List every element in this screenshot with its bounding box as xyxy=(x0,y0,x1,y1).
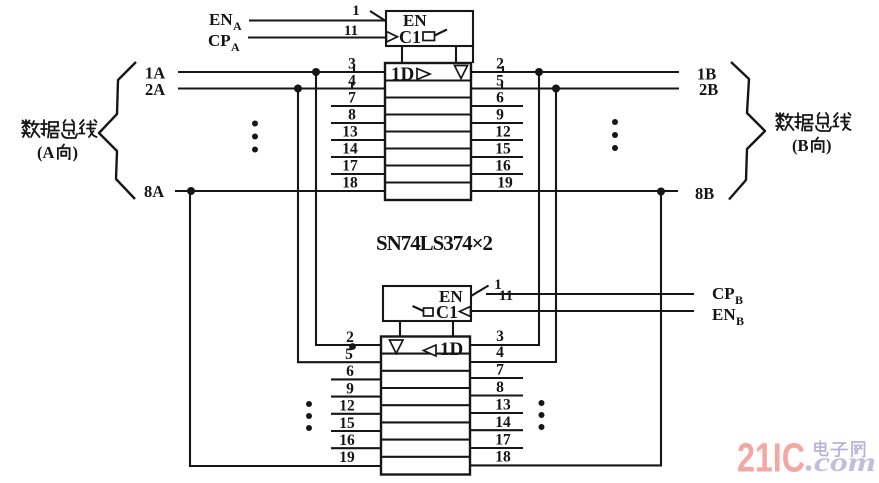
U1 left pin stub xyxy=(331,105,385,107)
pin 3 tick xyxy=(353,66,355,72)
svg-text:): ) xyxy=(73,143,79,162)
wire 2A to U1 pin4 xyxy=(178,87,385,89)
U1 body divider 6 xyxy=(385,164,471,166)
svg-text:15: 15 xyxy=(339,415,355,432)
wire 8B down to U2 pin18 xyxy=(470,192,661,466)
wire 8A down to U2 pin19 xyxy=(190,191,381,466)
svg-text:17: 17 xyxy=(342,158,358,175)
wire CP_A xyxy=(248,36,386,38)
U2 body divider 2 xyxy=(381,370,470,372)
U1 left pin stub xyxy=(331,156,385,158)
U1 right pin stub xyxy=(471,173,523,175)
U2 body divider 6 xyxy=(381,439,470,441)
svg-text:18: 18 xyxy=(342,175,358,192)
svg-text:6: 6 xyxy=(346,363,354,380)
U1 body divider 1 xyxy=(385,79,471,81)
svg-text:1D: 1D xyxy=(440,339,463,360)
svg-text:CP: CP xyxy=(208,31,231,50)
svg-text:11: 11 xyxy=(499,288,513,304)
U2 EN active-low wedge pin1 xyxy=(471,286,489,297)
svg-text:19: 19 xyxy=(497,175,513,192)
svg-text:8A: 8A xyxy=(144,182,164,201)
label data bus A (数据总线) xyxy=(22,120,97,138)
svg-text:19: 19 xyxy=(339,449,355,466)
node junction 2B xyxy=(552,85,560,93)
U1 body divider 4 xyxy=(385,130,471,132)
U1 control-to-body connector left xyxy=(401,46,403,63)
U1 right pin stub xyxy=(471,105,523,107)
pin 5 tick xyxy=(501,83,503,89)
svg-text:14: 14 xyxy=(342,141,358,158)
svg-text:17: 17 xyxy=(495,432,511,449)
U1 body divider 2 xyxy=(385,96,471,98)
wire U1 pin5 to 2B xyxy=(471,87,679,89)
U2 left pin stub xyxy=(331,430,381,432)
svg-text:B: B xyxy=(736,314,744,328)
wire 1A down to U2 pin2 xyxy=(316,72,381,345)
right data-bus brace xyxy=(729,62,765,200)
node junction 2A xyxy=(294,85,302,93)
U2 right pin stub xyxy=(470,394,523,396)
U1 D-input triangle xyxy=(417,69,430,80)
svg-text:18: 18 xyxy=(495,449,511,466)
U2 right pin stub xyxy=(470,377,523,379)
left data-bus brace xyxy=(99,62,136,199)
svg-text:2A: 2A xyxy=(145,80,165,99)
U2 body divider 1 xyxy=(381,353,470,355)
op U1 register body SN74LS374 xyxy=(385,63,471,200)
U1 control-to-body connector edge xyxy=(472,46,474,63)
op U1 control block outline xyxy=(386,11,473,46)
svg-text:9: 9 xyxy=(496,107,504,124)
U1 body divider 3 xyxy=(385,113,471,115)
U2 left pin stub xyxy=(331,447,381,449)
svg-text:14: 14 xyxy=(495,414,511,431)
wire 1A to U1 pin3 xyxy=(178,71,385,73)
wire U1 pin19 to 8B xyxy=(471,190,678,192)
U2 body divider 3 xyxy=(381,387,470,389)
U1 body divider 5 xyxy=(385,147,471,149)
U1 polarity flag stroke xyxy=(435,30,448,36)
svg-text:EN: EN xyxy=(712,305,736,324)
U2 D-input triangle xyxy=(424,345,437,356)
ellipsis dots (more bus lines) xyxy=(252,121,258,127)
pin 2 tick xyxy=(502,66,504,72)
U2 body divider 4 xyxy=(381,404,470,406)
U1 right pin stub xyxy=(471,139,523,141)
node junction 8A xyxy=(187,187,195,195)
node junction 1A xyxy=(312,68,320,76)
U2 left pin stub xyxy=(331,413,381,415)
U1 left pin stub xyxy=(331,173,385,175)
U2 control-to-body connector right xyxy=(452,321,454,337)
wire 2A down to U2 pin5 xyxy=(298,89,381,363)
svg-text:8: 8 xyxy=(496,379,504,396)
U1 tristate triangle xyxy=(455,66,468,79)
svg-text:8: 8 xyxy=(348,107,356,124)
svg-text:C1: C1 xyxy=(436,302,458,322)
ellipsis dots (more bus lines) xyxy=(306,401,312,407)
svg-text:): ) xyxy=(826,136,832,155)
U1 polarity flag square xyxy=(423,32,435,41)
svg-text:16: 16 xyxy=(495,158,511,175)
node junction 8B xyxy=(657,188,665,196)
wire U2 C1 to EN_B xyxy=(471,310,694,312)
U1 control-to-body connector right xyxy=(455,46,457,63)
svg-text:21IC: 21IC xyxy=(737,435,805,481)
U1 left pin stub xyxy=(331,122,385,124)
svg-text:A: A xyxy=(233,19,242,33)
U2 clock edge triangle xyxy=(460,307,471,317)
U2 polarity flag square xyxy=(424,308,434,316)
U2 left pin stub xyxy=(331,378,381,380)
watermark dot xyxy=(806,465,812,471)
node junction U2 pin2 tick xyxy=(349,343,356,350)
svg-text:12: 12 xyxy=(339,398,355,415)
U1 body divider 7 xyxy=(385,181,471,183)
svg-text:11: 11 xyxy=(344,23,358,39)
svg-text:(A: (A xyxy=(37,143,54,162)
U2 right pin stub xyxy=(470,447,523,449)
svg-text:EN: EN xyxy=(209,10,233,29)
watermark 电子网 xyxy=(815,441,865,457)
svg-text:16: 16 xyxy=(339,432,355,449)
U1 left pin stub xyxy=(331,139,385,141)
U1 EN active-low wedge pin1 xyxy=(370,11,386,21)
op U2 control block outline xyxy=(383,286,471,321)
svg-text:12: 12 xyxy=(495,124,511,141)
op U2 register body SN74LS374 xyxy=(381,337,470,475)
wire 2B down to U2 pin4 xyxy=(470,89,556,363)
ellipsis dots (more bus lines) xyxy=(612,119,618,125)
svg-text:A: A xyxy=(231,40,240,54)
svg-text:1: 1 xyxy=(352,3,360,19)
svg-text:CP: CP xyxy=(712,284,735,303)
svg-text:C1: C1 xyxy=(399,27,421,47)
svg-text:(B: (B xyxy=(792,136,809,155)
U1 right pin stub xyxy=(471,122,523,124)
U2 polarity flag stroke xyxy=(413,306,424,311)
svg-text:13: 13 xyxy=(342,124,358,141)
svg-text:9: 9 xyxy=(346,380,354,397)
U2 right pin stub xyxy=(470,412,523,414)
svg-text:7: 7 xyxy=(496,362,504,379)
svg-text:2: 2 xyxy=(346,329,354,346)
U2 body divider 5 xyxy=(381,421,470,423)
U2 right pin stub xyxy=(470,429,523,431)
svg-text:4: 4 xyxy=(496,344,504,361)
U2 body divider 7 xyxy=(381,456,470,458)
wire U1 pin2 to 1B xyxy=(471,71,679,73)
label data bus B (数据总线) xyxy=(776,113,851,131)
svg-text:6: 6 xyxy=(496,90,504,107)
ellipsis dots (more bus lines) xyxy=(539,400,545,406)
U1 clock edge triangle xyxy=(387,32,398,43)
U2 tristate triangle xyxy=(390,340,404,354)
U1 right pin stub xyxy=(471,156,523,158)
pin 4 tick xyxy=(351,83,353,89)
svg-text:5: 5 xyxy=(345,346,353,363)
svg-text:13: 13 xyxy=(495,397,511,414)
svg-text:SN74LS374×2: SN74LS374×2 xyxy=(376,231,493,255)
wire U2 EN to CP_B xyxy=(486,293,694,295)
wire EN_A xyxy=(249,19,386,21)
U2 control-to-body connector left xyxy=(399,321,401,337)
svg-text:B: B xyxy=(735,293,743,307)
wire 8A to U1 pin18 xyxy=(175,190,385,192)
wire 1B down to U2 pin3 xyxy=(470,72,539,345)
U2 left pin stub xyxy=(331,396,381,398)
svg-text:3: 3 xyxy=(496,328,504,345)
svg-text:8B: 8B xyxy=(695,184,714,203)
svg-text:7: 7 xyxy=(348,90,356,107)
svg-text:2B: 2B xyxy=(699,80,718,99)
svg-text:1D: 1D xyxy=(391,64,414,85)
node junction 1B xyxy=(535,68,543,76)
svg-text:15: 15 xyxy=(495,141,511,158)
